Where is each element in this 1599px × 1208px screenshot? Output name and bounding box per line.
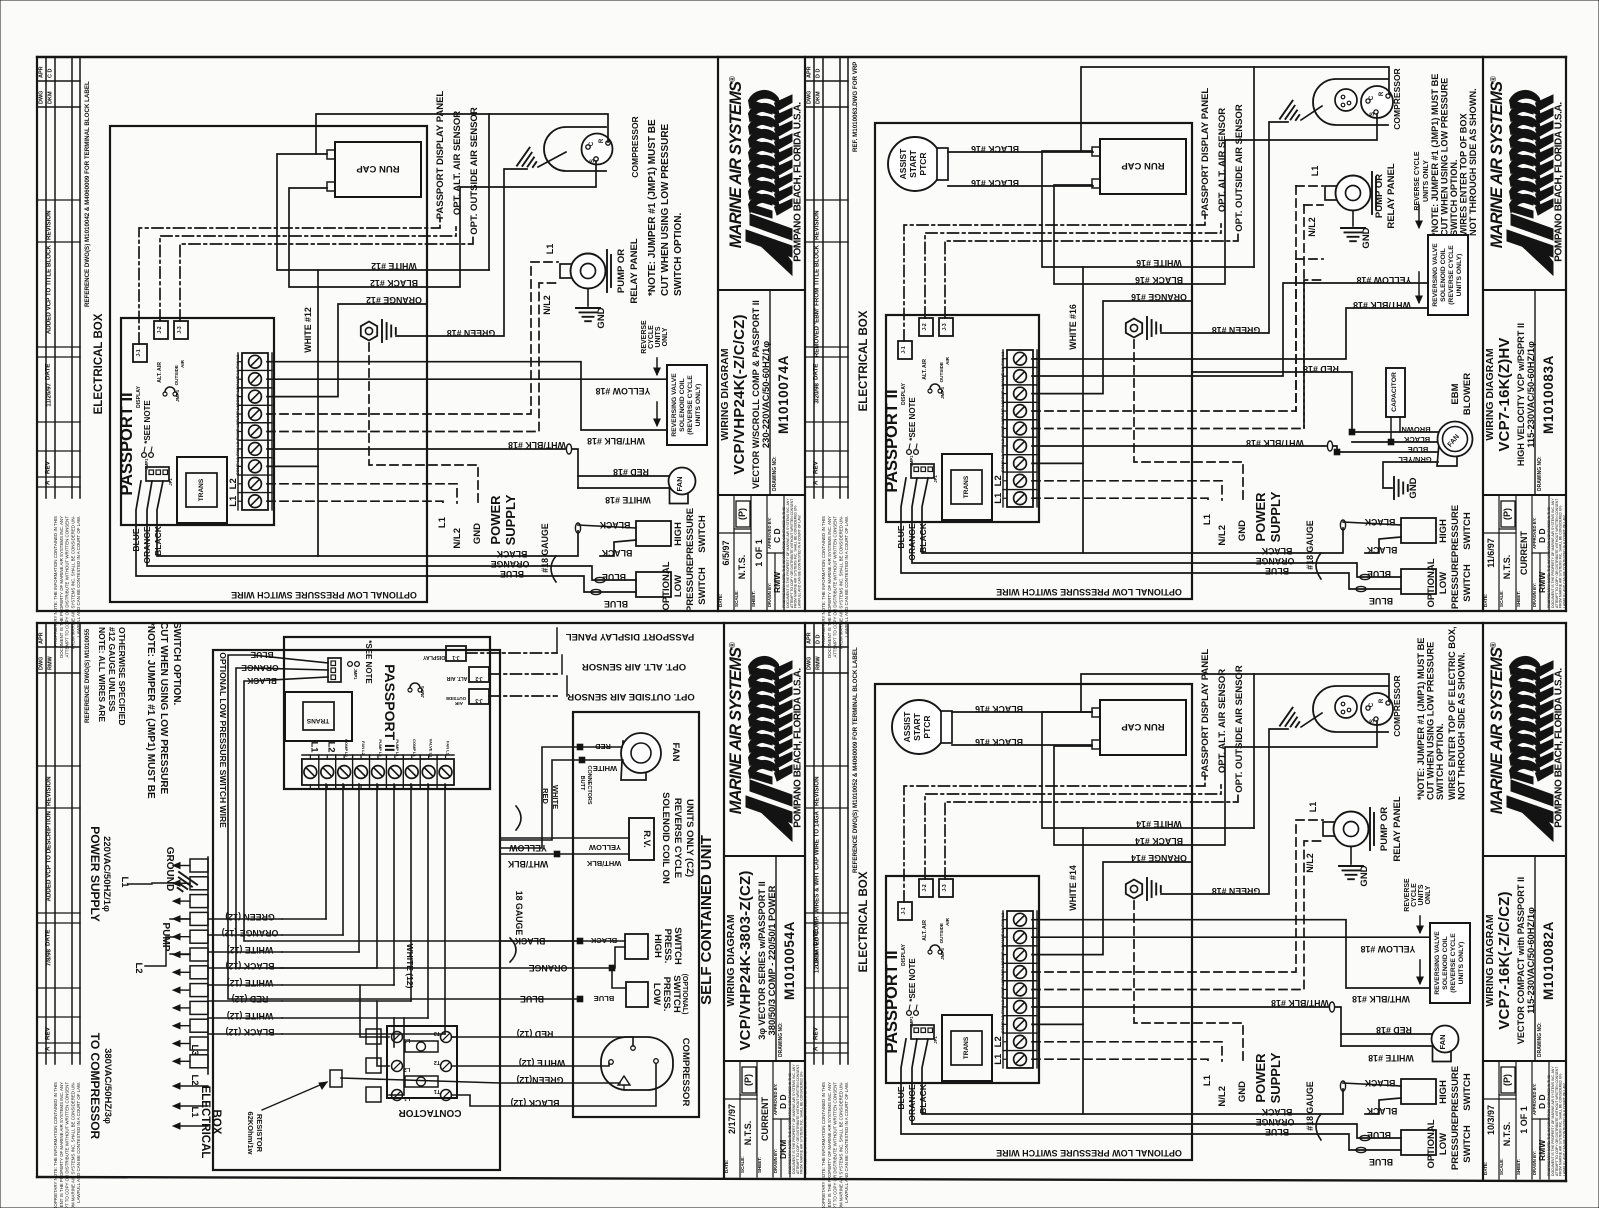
svg-text:BLUE: BLUE bbox=[1265, 1127, 1289, 1137]
svg-text:PUMP L2: PUMP L2 bbox=[378, 739, 383, 757]
svg-text:PTCR: PTCR bbox=[922, 715, 932, 738]
svg-text:CURRENT: CURRENT bbox=[1519, 530, 1529, 575]
svg-text:LAWFULL AND CAN BE CONTESTED I: LAWFULL AND CAN BE CONTESTED IN A COURT … bbox=[804, 1081, 808, 1174]
svg-text:BLUE: BLUE bbox=[1369, 1157, 1393, 1167]
svg-text:WIRES ENTER TOP OF BOX: WIRES ENTER TOP OF BOX bbox=[1459, 112, 1469, 236]
svg-text:R.V.: R.V. bbox=[641, 830, 652, 848]
svg-text:REMOVED 'EBM' FROM TITLE BLOCK: REMOVED 'EBM' FROM TITLE BLOCK bbox=[814, 244, 821, 357]
svg-text:ORANGE: ORANGE bbox=[907, 1084, 917, 1122]
svg-text:REV: REV bbox=[813, 1026, 820, 1040]
svg-text:RESISTOR: RESISTOR bbox=[255, 1114, 264, 1153]
svg-text:JMP1: JMP1 bbox=[353, 669, 358, 681]
svg-text:WHT/BLK: WHT/BLK bbox=[507, 859, 548, 869]
svg-text:COMPRESSOR: COMPRESSOR bbox=[1392, 675, 1402, 736]
svg-text:ORANGE: ORANGE bbox=[529, 963, 568, 973]
svg-text:#12 GAUGE UNLESS: #12 GAUGE UNLESS bbox=[107, 627, 117, 712]
svg-text:*NOTE: JUMPER #1 (JMP1) MUST B: *NOTE: JUMPER #1 (JMP1) MUST BE bbox=[647, 119, 658, 296]
svg-text:PUMP OR: PUMP OR bbox=[1374, 174, 1385, 218]
svg-text:ELECTRICAL: ELECTRICAL bbox=[199, 1086, 211, 1159]
svg-text:L1: L1 bbox=[119, 876, 130, 888]
svg-text:®: ® bbox=[1489, 76, 1498, 82]
svg-text:J-3: J-3 bbox=[475, 697, 482, 703]
svg-text:10/3/97: 10/3/97 bbox=[1486, 1105, 1496, 1135]
svg-text:WHITE: WHITE bbox=[593, 764, 617, 773]
svg-text:RED #18: RED #18 bbox=[613, 467, 649, 477]
svg-text:BLACK: BLACK bbox=[599, 520, 630, 530]
svg-text:WHITE (12): WHITE (12) bbox=[227, 978, 273, 988]
svg-text:J-2: J-2 bbox=[922, 323, 928, 330]
svg-text:SWITCH: SWITCH bbox=[697, 567, 708, 605]
svg-text:GND: GND bbox=[472, 523, 483, 544]
svg-text:SOLENOID COIL ON: SOLENOID COIL ON bbox=[660, 792, 671, 884]
svg-text:CONTACTOR: CONTACTOR bbox=[398, 1107, 462, 1118]
svg-text:OPT. ALT. AIR SENSOR: OPT. ALT. AIR SENSOR bbox=[1217, 108, 1228, 212]
svg-text:J-1: J-1 bbox=[452, 654, 459, 660]
svg-text:DISPLAY: DISPLAY bbox=[422, 654, 445, 660]
sheet TL revision table bbox=[45, 57, 47, 498]
svg-text:MARINE AIR SYSTEMS: MARINE AIR SYSTEMS bbox=[727, 81, 745, 248]
svg-text:HIGH: HIGH bbox=[652, 934, 663, 958]
svg-text:GREEN (12): GREEN (12) bbox=[225, 912, 274, 922]
svg-text:*NOTE: JUMPER #1 (JMP1) MUST B: *NOTE: JUMPER #1 (JMP1) MUST BE bbox=[1430, 74, 1440, 236]
svg-text:®: ® bbox=[728, 642, 737, 648]
svg-text:WHITE #14: WHITE #14 bbox=[1136, 819, 1182, 829]
svg-text:ELECTRICAL BOX: ELECTRICAL BOX bbox=[858, 310, 870, 411]
svg-text:WHT/BLK #18: WHT/BLK #18 bbox=[1352, 994, 1410, 1004]
svg-text:BLUE: BLUE bbox=[520, 994, 544, 1004]
svg-text:N.T.S.: N.T.S. bbox=[1502, 555, 1512, 580]
svg-text:OPT. OUTSIDE AIR SENSOR: OPT. OUTSIDE AIR SENSOR bbox=[469, 107, 480, 235]
svg-text:REVISION: REVISION bbox=[814, 776, 821, 806]
svg-text:FAN L1: FAN L1 bbox=[1000, 351, 1005, 366]
svg-text:REVISION: REVISION bbox=[814, 210, 821, 240]
svg-text:DISPLAY: DISPLAY bbox=[901, 382, 907, 405]
svg-text:UNITS ONLY): UNITS ONLY) bbox=[695, 384, 702, 427]
svg-text:BLUE: BLUE bbox=[1367, 1130, 1391, 1140]
svg-text:TRANS: TRANS bbox=[963, 475, 970, 498]
svg-text:SUPPLY: SUPPLY bbox=[1268, 491, 1283, 542]
svg-text:JMP4: JMP4 bbox=[175, 390, 180, 402]
svg-text:12/18/97: 12/18/97 bbox=[814, 948, 821, 973]
svg-text:BLOWER: BLOWER bbox=[1462, 373, 1473, 415]
svg-text:NOT THROUGH SIDE AS SHOWN.: NOT THROUGH SIDE AS SHOWN. bbox=[1457, 652, 1467, 800]
svg-text:N.T.S.: N.T.S. bbox=[737, 555, 747, 580]
svg-text:J-1: J-1 bbox=[136, 349, 142, 356]
svg-text:WIRING DIAGRAM: WIRING DIAGRAM bbox=[725, 914, 737, 1006]
svg-text:COMP L1: COMP L1 bbox=[235, 387, 240, 405]
svg-text:BLACK: BLACK bbox=[496, 549, 527, 559]
svg-text:WIRING DIAGRAM: WIRING DIAGRAM bbox=[1484, 348, 1496, 440]
svg-text:COMP L2: COMP L2 bbox=[1000, 454, 1005, 472]
svg-text:J-2: J-2 bbox=[157, 326, 163, 333]
svg-text:PTCR: PTCR bbox=[918, 152, 928, 175]
label optional low pressure switch wire bbox=[110, 126, 427, 602]
svg-text:C: C bbox=[1369, 95, 1375, 100]
svg-text:FROM MARINE AIR SYSTEMS INC. S: FROM MARINE AIR SYSTEMS INC. SHALL BE CO… bbox=[838, 515, 843, 649]
svg-text:GND: GND bbox=[1408, 477, 1419, 498]
svg-text:D D: D D bbox=[816, 69, 822, 79]
svg-text:A: A bbox=[813, 480, 820, 485]
svg-text:SHEET:: SHEET: bbox=[757, 1156, 762, 1173]
svg-text:OPT. ALT. AIR SENSOR: OPT. ALT. AIR SENSOR bbox=[582, 661, 686, 672]
svg-text:COMP L2: COMP L2 bbox=[235, 457, 240, 475]
svg-text:APR: APR bbox=[39, 632, 45, 644]
svg-text:DWG: DWG bbox=[39, 91, 45, 104]
svg-text:BLUE: BLUE bbox=[1408, 445, 1428, 454]
svg-text:BROWN: BROWN bbox=[1401, 425, 1430, 434]
svg-text:APR: APR bbox=[39, 66, 45, 78]
svg-text:FAN L2: FAN L2 bbox=[235, 441, 240, 456]
svg-text:N/L2: N/L2 bbox=[1217, 1086, 1228, 1107]
svg-text:(REVERSE CYCLE: (REVERSE CYCLE bbox=[1448, 245, 1455, 305]
svg-text:J-1: J-1 bbox=[901, 907, 907, 914]
svg-text:BLACK: BLACK bbox=[1364, 517, 1395, 527]
svg-text:WHT/BLK: WHT/BLK bbox=[586, 859, 621, 868]
svg-text:REVERSE CYCLE: REVERSE CYCLE bbox=[1414, 151, 1421, 210]
svg-text:DWG: DWG bbox=[807, 91, 813, 104]
svg-text:WHITE (12): WHITE (12) bbox=[519, 1058, 565, 1068]
svg-text:UNITS ONLY (CZ): UNITS ONLY (CZ) bbox=[684, 799, 695, 877]
svg-text:GND: GND bbox=[596, 307, 607, 328]
sheet TR title block bbox=[1482, 57, 1484, 611]
svg-text:PUMP OR: PUMP OR bbox=[1379, 807, 1390, 851]
svg-text:A: A bbox=[813, 1046, 820, 1051]
svg-text:BLUE: BLUE bbox=[602, 572, 626, 582]
fan motor bbox=[892, 700, 946, 754]
svg-text:®: ® bbox=[1489, 642, 1498, 648]
svg-text:OPT. OUTSIDE AIR SENSOR: OPT. OUTSIDE AIR SENSOR bbox=[567, 691, 695, 702]
svg-text:LAWFULL AND CAN BE CONTESTED I: LAWFULL AND CAN BE CONTESTED IN A COURT … bbox=[844, 1082, 849, 1203]
svg-text:PASSPORT DISPLAY PANEL: PASSPORT DISPLAY PANEL bbox=[1200, 88, 1211, 217]
svg-text:1 OF 1: 1 OF 1 bbox=[1519, 1106, 1529, 1134]
svg-text:M1010083A: M1010083A bbox=[1541, 355, 1556, 434]
svg-text:A: A bbox=[45, 480, 52, 485]
svg-text:BLACK: BLACK bbox=[514, 936, 545, 946]
svg-text:WIRING DIAGRAM: WIRING DIAGRAM bbox=[1484, 914, 1496, 1006]
svg-text:DATE: DATE bbox=[813, 364, 820, 380]
svg-text:REVERSE CYCLE: REVERSE CYCLE bbox=[672, 798, 683, 878]
svg-text:L1: L1 bbox=[1202, 1074, 1213, 1086]
svg-text:BLACK (12): BLACK (12) bbox=[225, 961, 274, 971]
svg-text:PRESSURE: PRESSURE bbox=[1450, 557, 1461, 609]
svg-text:GND: GND bbox=[1237, 1081, 1248, 1102]
svg-text:VCP/VHP24K-3803-Z(CZ): VCP/VHP24K-3803-Z(CZ) bbox=[737, 870, 754, 1050]
svg-text:N/L2: N/L2 bbox=[452, 528, 463, 549]
svg-text:N.T.S.: N.T.S. bbox=[1502, 1122, 1512, 1147]
svg-text:SWITCH: SWITCH bbox=[1462, 512, 1473, 550]
svg-text:*SEE NOTE: *SEE NOTE bbox=[364, 640, 373, 684]
sheet TL title block bbox=[717, 57, 719, 611]
svg-text:LAWFULL AND CAN BE CONTESTED I: LAWFULL AND CAN BE CONTESTED IN A COURT … bbox=[76, 1082, 81, 1203]
svg-text:BLUE: BLUE bbox=[594, 994, 614, 1003]
svg-text:MARINE AIR SYSTEMS: MARINE AIR SYSTEMS bbox=[727, 647, 745, 814]
svg-text:RED: RED bbox=[595, 742, 611, 751]
svg-text:M1010082A: M1010082A bbox=[1541, 921, 1556, 1000]
svg-text:EBM: EBM bbox=[1450, 383, 1461, 404]
svg-text:*NOTE: JUMPER #1 (JMP1) MUST B: *NOTE: JUMPER #1 (JMP1) MUST BE bbox=[145, 622, 156, 799]
svg-text:C D: C D bbox=[772, 528, 782, 543]
svg-text:SCALE:: SCALE: bbox=[1499, 590, 1504, 607]
svg-text:BLUE: BLUE bbox=[1369, 596, 1393, 606]
svg-text:C: C bbox=[1369, 702, 1375, 707]
svg-text:RELAY PANEL: RELAY PANEL bbox=[629, 238, 640, 303]
svg-text:BLACK (12): BLACK (12) bbox=[225, 1027, 274, 1037]
svg-text:BLUE: BLUE bbox=[896, 525, 906, 548]
svg-text:220VAC/50HZ/1φ: 220VAC/50HZ/1φ bbox=[101, 836, 112, 912]
page outer border bbox=[37, 56, 1566, 58]
svg-text:WHITE #16: WHITE #16 bbox=[1136, 258, 1182, 268]
svg-text:ORANGE: ORANGE bbox=[1256, 1117, 1295, 1127]
svg-text:6/5/97: 6/5/97 bbox=[721, 540, 731, 565]
svg-text:YELLOW #18: YELLOW #18 bbox=[1361, 944, 1416, 954]
svg-text:START: START bbox=[908, 149, 918, 178]
svg-text:DOCUMENT IS THE PROPERTY OF MA: DOCUMENT IS THE PROPERTY OF MARINE AIR S… bbox=[827, 516, 832, 658]
svg-text:L1: L1 bbox=[1202, 513, 1213, 525]
svg-text:CYCLE: CYCLE bbox=[1411, 883, 1418, 907]
svg-text:ATTEMPT TO COPY OR DISTRIBUTE: ATTEMPT TO COPY OR DISTRIBUTE WITHOUT WR… bbox=[833, 516, 838, 658]
svg-text:L2: L2 bbox=[404, 1066, 410, 1072]
svg-text:UNITS ONLY): UNITS ONLY) bbox=[1458, 942, 1465, 985]
svg-text:ASSIST: ASSIST bbox=[902, 711, 912, 743]
svg-text:BLUE: BLUE bbox=[131, 528, 141, 551]
fan motor bbox=[267, 362, 667, 430]
svg-text:ORANGE: ORANGE bbox=[241, 663, 279, 673]
svg-text:PRESSURE: PRESSURE bbox=[1450, 505, 1461, 557]
svg-text:CYCLE: CYCLE bbox=[648, 325, 655, 349]
svg-text:BLACK #14: BLACK #14 bbox=[1135, 836, 1183, 846]
svg-text:ALT. AIR: ALT. AIR bbox=[157, 362, 163, 383]
svg-text:TRANS: TRANS bbox=[963, 1036, 970, 1059]
svg-text:PROPRIETARY NOTE: THE INFORMA: PROPRIETARY NOTE: THE INFORMATION CONTAI… bbox=[53, 1082, 58, 1208]
svg-text:L2: L2 bbox=[189, 1074, 200, 1085]
svg-text:POMPANO BEACH, FLORIDA U.S.A.: POMPANO BEACH, FLORIDA U.S.A. bbox=[1554, 668, 1565, 828]
svg-text:(P): (P) bbox=[1502, 508, 1512, 520]
svg-text:BLACK #12: BLACK #12 bbox=[370, 278, 418, 288]
svg-text:PASSPORT II: PASSPORT II bbox=[118, 392, 136, 495]
svg-text:L2: L2 bbox=[993, 1036, 1004, 1047]
svg-text:DRAWING NO:: DRAWING NO: bbox=[772, 456, 778, 491]
svg-text:ORANGE: ORANGE bbox=[1256, 556, 1295, 566]
svg-text:ONLY: ONLY bbox=[1425, 885, 1432, 904]
svg-text:SHEET:: SHEET: bbox=[1516, 1158, 1521, 1175]
svg-text:BLACK: BLACK bbox=[601, 548, 632, 558]
svg-text:PASSPORT II: PASSPORT II bbox=[883, 950, 901, 1053]
svg-text:L1: L1 bbox=[1308, 802, 1318, 813]
svg-text:CUT WHEN USING LOW PRESSURE: CUT WHEN USING LOW PRESSURE bbox=[660, 123, 671, 296]
svg-text:N.T.S.: N.T.S. bbox=[743, 1121, 753, 1146]
svg-text:FAN: FAN bbox=[675, 477, 684, 492]
svg-text:FAN L1: FAN L1 bbox=[446, 741, 451, 756]
svg-text:JP1: JP1 bbox=[933, 1036, 938, 1044]
svg-text:GREEN #18: GREEN #18 bbox=[1212, 886, 1261, 896]
svg-text:ATTEMPT TO COPY OR DISTRIBUTE: ATTEMPT TO COPY OR DISTRIBUTE WITHOUT WR… bbox=[833, 1082, 838, 1208]
svg-text:J-2: J-2 bbox=[475, 675, 482, 681]
svg-text:HIGH: HIGH bbox=[673, 522, 684, 546]
svg-text:GREEN(12): GREEN(12) bbox=[516, 1075, 563, 1085]
label optional low pressure switch wire bbox=[875, 684, 1192, 1160]
svg-text:11/26/97: 11/26/97 bbox=[46, 382, 53, 406]
svg-text:T2: T2 bbox=[434, 1059, 440, 1065]
svg-text:TRANS: TRANS bbox=[198, 478, 205, 501]
svg-text:PRESS.: PRESS. bbox=[661, 977, 672, 1012]
svg-text:BLACK #16: BLACK #16 bbox=[1135, 275, 1183, 285]
svg-text:FROM MARINE AIR SYSTEMS INC. S: FROM MARINE AIR SYSTEMS INC. SHALL BE CO… bbox=[70, 1081, 75, 1208]
svg-text:YELLOW: YELLOW bbox=[588, 843, 621, 852]
svg-text:RUN CAP: RUN CAP bbox=[356, 163, 400, 174]
svg-text:ADDED VCP TO TITLE BLOCK: ADDED VCP TO TITLE BLOCK bbox=[46, 244, 53, 334]
svg-text:DOCUMENT IS THE PROPERTY OF MA: DOCUMENT IS THE PROPERTY OF MARINE AIR S… bbox=[827, 1082, 832, 1208]
svg-text:REVISION: REVISION bbox=[46, 210, 53, 240]
svg-text:PROPRIETARY NOTE: THE INFORMA: PROPRIETARY NOTE: THE INFORMATION CONTAI… bbox=[821, 1082, 826, 1208]
svg-text:DRAWING NO:: DRAWING NO: bbox=[778, 1022, 784, 1057]
svg-text:*SEE NOTE: *SEE NOTE bbox=[908, 397, 917, 441]
sheet TR revision table bbox=[813, 57, 815, 498]
svg-text:(REVERSE CYCLE: (REVERSE CYCLE bbox=[1450, 933, 1457, 993]
svg-text:LOW: LOW bbox=[1438, 1133, 1449, 1155]
svg-text:*SEE NOTE: *SEE NOTE bbox=[908, 958, 917, 1002]
svg-text:D D: D D bbox=[816, 635, 822, 645]
svg-text:GREEN #18: GREEN #18 bbox=[447, 328, 496, 338]
svg-text:LOW: LOW bbox=[651, 983, 662, 1005]
svg-text:BLUE: BLUE bbox=[604, 599, 628, 609]
svg-text:SWITCH: SWITCH bbox=[1462, 1125, 1473, 1163]
svg-text:REF. M1010063.DWG FOR VRP: REF. M1010063.DWG FOR VRP bbox=[852, 62, 859, 152]
svg-text:VCP/VHP24K(-Z/C/CZ): VCP/VHP24K(-Z/C/CZ) bbox=[731, 314, 748, 474]
svg-text:SWITCH OPTION.: SWITCH OPTION. bbox=[1449, 159, 1459, 236]
svg-text:PUMP L2: PUMP L2 bbox=[1000, 980, 1005, 998]
svg-text:COMP L2: COMP L2 bbox=[344, 739, 349, 757]
svg-text:NOTE: ALL WIRES ARE: NOTE: ALL WIRES ARE bbox=[97, 627, 107, 722]
svg-text:HIGH: HIGH bbox=[1438, 519, 1449, 543]
svg-text:COMPRESSOR: COMPRESSOR bbox=[630, 116, 640, 177]
svg-text:SWITCH OPTION.: SWITCH OPTION. bbox=[171, 622, 182, 706]
svg-text:N/L2: N/L2 bbox=[1307, 217, 1317, 237]
svg-text:NOT THROUGH SIDE AS SHOWN.: NOT THROUGH SIDE AS SHOWN. bbox=[1468, 88, 1478, 236]
svg-text:WHITE #18: WHITE #18 bbox=[605, 495, 651, 505]
svg-text:N/L2: N/L2 bbox=[1305, 853, 1315, 873]
svg-text:LAWFULL AND CAN BE CONTESTED I: LAWFULL AND CAN BE CONTESTED IN A COURT … bbox=[798, 515, 802, 608]
svg-text:START: START bbox=[912, 712, 922, 741]
svg-text:POMPANO BEACH, FLORIDA U.S.A.: POMPANO BEACH, FLORIDA U.S.A. bbox=[793, 102, 804, 262]
svg-text:DKM: DKM bbox=[778, 1140, 788, 1159]
svg-text:LAWFULL AND CAN BE CONTESTED I: LAWFULL AND CAN BE CONTESTED IN A COURT … bbox=[1563, 1083, 1567, 1176]
svg-text:PUMP L1: PUMP L1 bbox=[395, 739, 400, 757]
svg-text:PASSPORT DISPLAY PANEL: PASSPORT DISPLAY PANEL bbox=[1200, 649, 1211, 778]
label optional low pressure switch wire bbox=[875, 123, 1192, 599]
svg-text:OPTIONAL: OPTIONAL bbox=[1426, 558, 1437, 607]
svg-text:POWER: POWER bbox=[1253, 492, 1268, 542]
svg-text:WHT/BLK #18: WHT/BLK #18 bbox=[587, 436, 645, 446]
svg-text:GREEN #18: GREEN #18 bbox=[1212, 325, 1261, 335]
svg-text:BLACK (12): BLACK (12) bbox=[510, 1098, 559, 1108]
svg-text:DATE: DATE bbox=[813, 930, 820, 946]
svg-text:L2: L2 bbox=[228, 478, 239, 489]
svg-text:WHITE (12): WHITE (12) bbox=[227, 945, 273, 955]
svg-text:FROM MARINE AIR SYSTEMS INC. S: FROM MARINE AIR SYSTEMS INC. SHALL BE CO… bbox=[838, 1081, 843, 1208]
svg-text:AIR: AIR bbox=[454, 701, 463, 706]
svg-text:TO COMPRESSOR: TO COMPRESSOR bbox=[88, 1033, 102, 1140]
svg-text:BLACK #16: BLACK #16 bbox=[975, 737, 1023, 747]
svg-text:DOCUMENT IS THE PROPERTY OF MA: DOCUMENT IS THE PROPERTY OF MARINE AIR S… bbox=[59, 516, 64, 658]
svg-text:L1: L1 bbox=[308, 741, 319, 753]
svg-text:LOW: LOW bbox=[673, 575, 684, 597]
svg-text:CONNECTORS: CONNECTORS bbox=[586, 765, 592, 804]
svg-text:POWER SUPPLY: POWER SUPPLY bbox=[88, 826, 102, 922]
svg-text:WHT/BLK #18: WHT/BLK #18 bbox=[1353, 300, 1411, 310]
svg-text:FAN L2: FAN L2 bbox=[361, 741, 366, 756]
svg-text:VALVE L1: VALVE L1 bbox=[1000, 927, 1005, 946]
svg-text:L1: L1 bbox=[1310, 166, 1320, 177]
svg-text:BLUE: BLUE bbox=[1265, 566, 1289, 576]
svg-text:BUTT: BUTT bbox=[579, 776, 585, 791]
svg-text:SCALE:: SCALE: bbox=[1499, 1158, 1504, 1175]
svg-text:UNITS: UNITS bbox=[1418, 884, 1425, 905]
svg-text:JP1: JP1 bbox=[933, 475, 938, 483]
svg-text:J-3: J-3 bbox=[942, 884, 948, 891]
svg-text:SHEET:: SHEET: bbox=[1516, 590, 1521, 607]
svg-text:ORANGE: ORANGE bbox=[491, 559, 530, 569]
svg-text:ORANGE #14: ORANGE #14 bbox=[1131, 853, 1187, 863]
svg-text:D D: D D bbox=[778, 1094, 788, 1109]
svg-text:APR: APR bbox=[807, 632, 813, 644]
svg-text:BLACK #16: BLACK #16 bbox=[971, 178, 1019, 188]
svg-text:SHEET:: SHEET: bbox=[751, 590, 756, 607]
sheet BL title block bbox=[723, 623, 725, 1177]
svg-text:PASSPORT DISPLAY PANEL: PASSPORT DISPLAY PANEL bbox=[566, 631, 695, 642]
svg-text:*NOTE: JUMPER #1 (JMP1) MUST B: *NOTE: JUMPER #1 (JMP1) MUST BE bbox=[1416, 638, 1426, 800]
svg-text:LAWFULL AND CAN BE CONTESTED I: LAWFULL AND CAN BE CONTESTED IN A COURT … bbox=[844, 516, 849, 637]
svg-text:BLACK: BLACK bbox=[1366, 1106, 1397, 1116]
svg-text:M1010074A: M1010074A bbox=[776, 355, 791, 434]
svg-text:REVISION: REVISION bbox=[46, 776, 53, 806]
wire bundle loops bbox=[213, 650, 500, 1170]
svg-text:FAN L2: FAN L2 bbox=[1000, 438, 1005, 453]
svg-text:DATE:: DATE: bbox=[1483, 1161, 1488, 1175]
svg-text:R: R bbox=[1379, 698, 1385, 703]
svg-text:OPTIONAL LOW PRESSURE SWITC: OPTIONAL LOW PRESSURE SWITCH WIRE bbox=[996, 1148, 1182, 1158]
svg-text:T1: T1 bbox=[434, 1088, 440, 1094]
svg-text:(P): (P) bbox=[737, 508, 747, 520]
svg-text:DISPLAY: DISPLAY bbox=[136, 385, 142, 408]
svg-text:ORANGE #16: ORANGE #16 bbox=[1131, 292, 1187, 302]
svg-text:62KOhm/1w: 62KOhm/1w bbox=[246, 1112, 255, 1155]
svg-text:J-3: J-3 bbox=[942, 323, 948, 330]
svg-text:OPTIONAL LOW PRESSURE SWITC: OPTIONAL LOW PRESSURE SWITCH WIRE bbox=[231, 590, 417, 600]
svg-text:BLUE: BLUE bbox=[896, 1086, 906, 1109]
svg-text:ORANGE #12: ORANGE #12 bbox=[366, 295, 422, 305]
svg-text:18 GAUGE: 18 GAUGE bbox=[514, 891, 524, 936]
svg-text:PRESSURE: PRESSURE bbox=[685, 560, 696, 612]
svg-text:WHITE (12): WHITE (12) bbox=[405, 944, 415, 989]
svg-text:DATE: DATE bbox=[45, 930, 52, 946]
svg-text:A: A bbox=[45, 1046, 52, 1051]
svg-text:ALT. AIR: ALT. AIR bbox=[922, 359, 928, 380]
svg-text:D D: D D bbox=[1537, 1094, 1547, 1109]
svg-text:FROM MARINE AIR SYSTEMS INC. S: FROM MARINE AIR SYSTEMS INC. SHALL BE CO… bbox=[70, 515, 75, 649]
sheet BL revision table bbox=[45, 623, 47, 1064]
svg-text:VCP7-16K(-Z/C/CZ): VCP7-16K(-Z/C/CZ) bbox=[1496, 891, 1513, 1029]
svg-text:J-3: J-3 bbox=[177, 326, 183, 333]
svg-text:SWITCH: SWITCH bbox=[1462, 564, 1473, 602]
svg-text:WHT/BLK #18: WHT/BLK #18 bbox=[508, 440, 566, 450]
svg-text:(OPTIONAL): (OPTIONAL) bbox=[681, 974, 688, 1015]
svg-text:WIRES ENTER TOP OF ELECTRIC BO: WIRES ENTER TOP OF ELECTRIC BOX, bbox=[1447, 626, 1457, 800]
svg-text:PUMP L1: PUMP L1 bbox=[1000, 402, 1005, 420]
svg-text:R: R bbox=[599, 138, 605, 143]
svg-text:SELF CONTAINED UNIT: SELF CONTAINED UNIT bbox=[698, 835, 715, 1005]
svg-text:BLACK: BLACK bbox=[1261, 546, 1292, 556]
svg-text:D D: D D bbox=[1537, 528, 1547, 543]
